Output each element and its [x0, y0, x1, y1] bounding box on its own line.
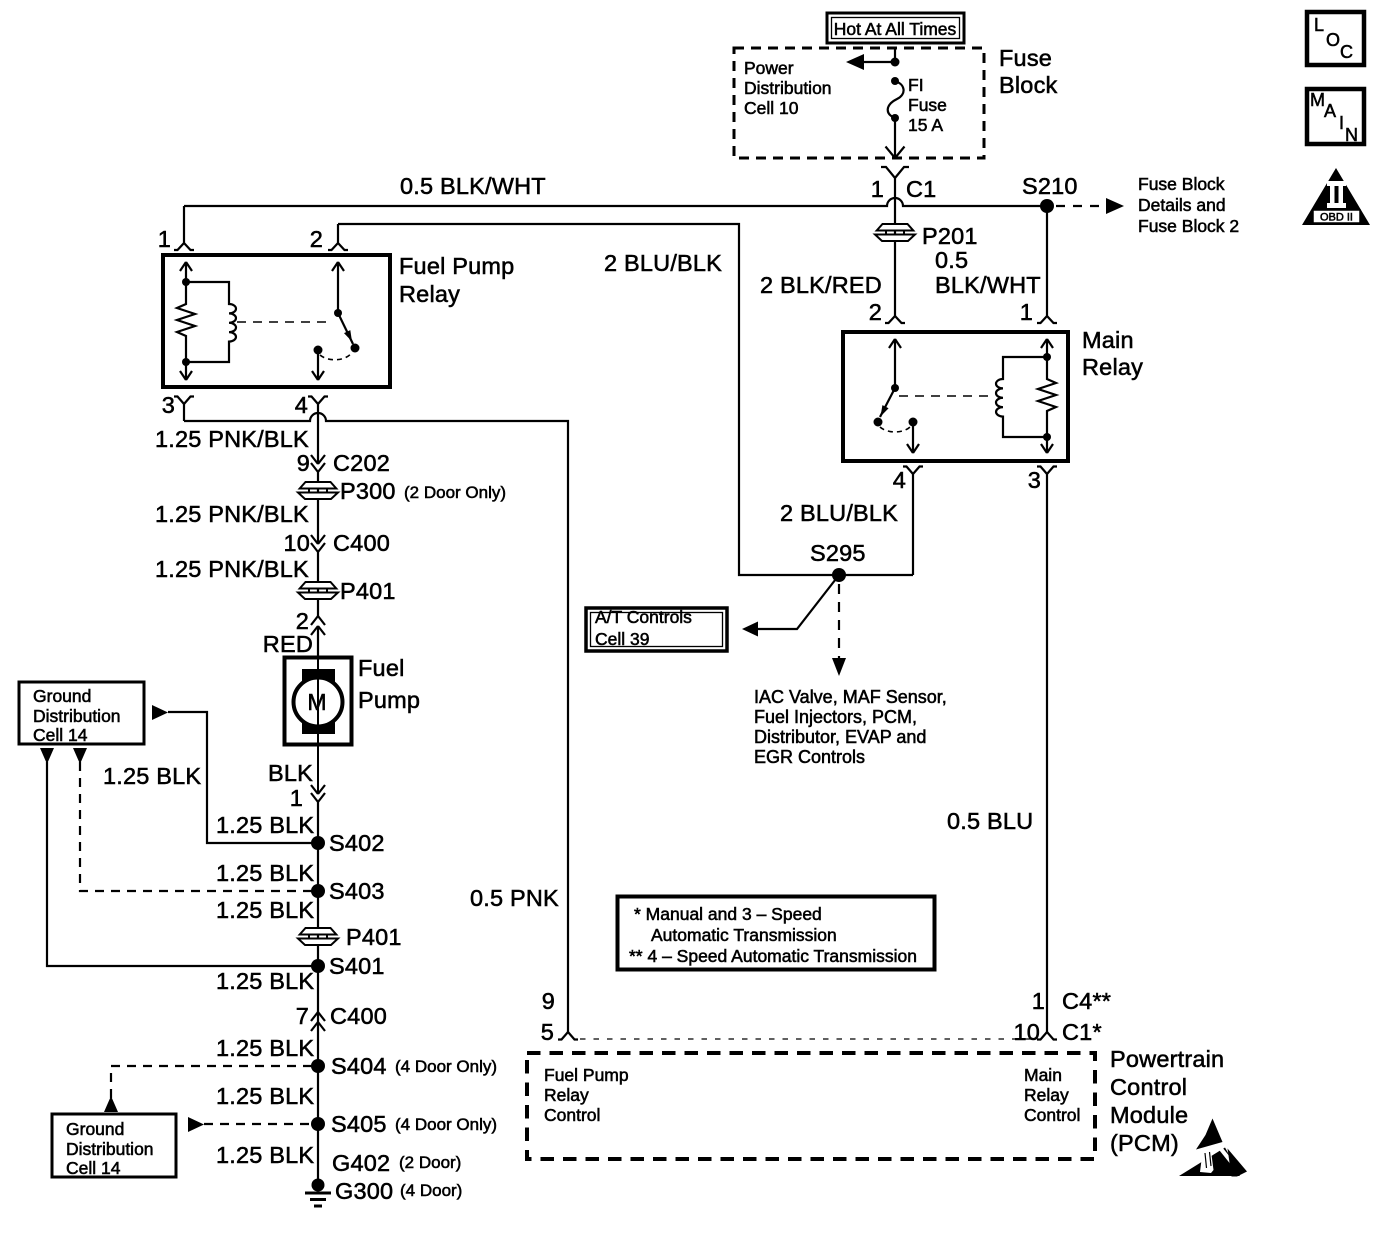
fuel pump connector pin 2 (inline, female + male arrow up) [263, 608, 325, 658]
dashed actuation line from coil to switch [237, 321, 330, 323]
wire: 1.25 PNK/BLK from relay pin 4 down [317, 412, 319, 464]
svg-text:C400: C400 [330, 1003, 387, 1029]
svg-text:Main: Main [1024, 1065, 1062, 1085]
svg-text:BLK/WHT: BLK/WHT [935, 272, 1041, 298]
fuel pump motor [285, 655, 421, 745]
wire: 1.25 BLK from box to S402 [168, 712, 318, 843]
svg-text:P300: P300 [340, 478, 396, 504]
arrow down from box (solid wire to S401) [40, 748, 54, 764]
wire: dashed from lower box up and right to S404 [111, 1066, 318, 1098]
pin 2 of main relay (female connector) [869, 299, 905, 325]
splice S403 [311, 884, 325, 898]
svg-text:Distribution: Distribution [33, 706, 121, 726]
Hot At All Times label box [827, 13, 964, 43]
svg-text:C1: C1 [906, 176, 936, 202]
svg-text:P401: P401 [340, 578, 396, 604]
powertrain control module PCM (dashed box) [527, 1053, 1095, 1159]
svg-text:S210: S210 [1022, 173, 1078, 199]
wire: S210 down to main relay pin 1 [1046, 206, 1048, 316]
svg-text:C: C [1340, 42, 1353, 62]
svg-text:Relay: Relay [1082, 354, 1143, 380]
svg-text:Distribution: Distribution [66, 1139, 154, 1159]
svg-text:Fuse Block: Fuse Block [1138, 174, 1225, 194]
fuse FI 15A [888, 75, 947, 135]
svg-text:Fuel Pump: Fuel Pump [544, 1065, 629, 1085]
svg-text:P201: P201 [922, 223, 978, 249]
svg-text:1.25 BLK: 1.25 BLK [216, 1035, 314, 1061]
arrow down to IAC valve etc. [832, 658, 846, 676]
node: coil/resistor top junction [1043, 353, 1051, 361]
connector C1 female Y, pin 1 [871, 167, 937, 206]
relay coil branch: arrow up to pin 1 inside box [1041, 339, 1053, 357]
svg-text:Fuel Pump: Fuel Pump [399, 253, 514, 279]
svg-text:9: 9 [297, 450, 310, 476]
svg-text:Relay: Relay [399, 281, 460, 307]
svg-text:A: A [1324, 101, 1336, 121]
pin 3 of main relay (female connector) [1028, 467, 1057, 1033]
svg-text:1: 1 [871, 176, 884, 202]
wire: dashed continuation from S210 to fuse block details [1056, 205, 1102, 207]
svg-text:I: I [1339, 113, 1344, 133]
svg-text:Block: Block [999, 72, 1058, 98]
svg-text:1.25 BLK: 1.25 BLK [216, 860, 314, 886]
svg-text:M: M [1310, 90, 1325, 110]
svg-text:BLK: BLK [268, 760, 313, 786]
svg-text:1.25 BLK: 1.25 BLK [216, 1083, 314, 1109]
wire: from box down to S401 [47, 762, 318, 966]
connector C400 pin 10 (inline, male arrow down + female) [283, 530, 390, 616]
svg-text:1: 1 [158, 226, 171, 252]
arrow up from lower box (dashed wire to S404) [104, 1096, 118, 1112]
arrow right from lower box (dashed wire to S405) [188, 1117, 204, 1132]
ground distribution reference box (upper) [19, 682, 144, 745]
svg-text:Control: Control [1024, 1105, 1080, 1125]
svg-text:(2 Door Only): (2 Door Only) [404, 483, 506, 502]
pin 2 of fuel pump relay (female connector) [310, 224, 348, 252]
splice S404 [311, 1059, 325, 1073]
pin 1 of main relay (female connector) [1020, 299, 1057, 325]
svg-text:Cell 14: Cell 14 [66, 1158, 121, 1178]
node: coil/resistor bottom junction [182, 358, 190, 366]
svg-text:C202: C202 [333, 450, 390, 476]
ground distribution reference box (lower) [52, 1114, 176, 1178]
svg-text:2 BLK/RED: 2 BLK/RED [760, 272, 882, 298]
svg-text:0.5: 0.5 [935, 247, 968, 273]
wire: contact down to pin 4, arrow at box edge [907, 422, 919, 453]
svg-text:1.25 BLK: 1.25 BLK [216, 1142, 314, 1168]
svg-text:C4**: C4** [1062, 988, 1111, 1014]
wire: contact down to pin 4, arrow at box edge [312, 350, 324, 380]
grommet P401 (lower) [298, 924, 402, 950]
splice S210 [1040, 199, 1054, 213]
wire: dashed from S295 down to IAC etc. [838, 584, 840, 658]
svg-text:Fuse Block 2: Fuse Block 2 [1138, 216, 1239, 236]
svg-text:Pump: Pump [358, 687, 420, 713]
arrow down from box (dashed wire to S403) [73, 748, 87, 764]
svg-text:Control: Control [1110, 1074, 1187, 1100]
pin 4 of fuel pump relay (female connector) [295, 392, 328, 418]
grommet P201 [875, 223, 978, 249]
grommet P401 [298, 578, 396, 604]
relay coil (inductor) of fuel pump relay [186, 282, 236, 362]
svg-text:10: 10 [283, 530, 310, 556]
svg-text:S295: S295 [810, 540, 866, 566]
relay coil (inductor) of main relay [996, 357, 1047, 437]
svg-text:3: 3 [162, 392, 175, 418]
node: coil/resistor top junction [182, 278, 190, 286]
svg-text:15 A: 15 A [908, 115, 943, 135]
svg-text:Fuel Injectors, PCM,: Fuel Injectors, PCM, [754, 707, 917, 727]
svg-text:7: 7 [296, 1003, 309, 1029]
wire: arrow down to pin 3 inside box [1041, 437, 1053, 453]
svg-text:S403: S403 [329, 878, 385, 904]
svg-text:0.5 BLU: 0.5 BLU [947, 808, 1033, 834]
svg-text:1.25 BLK: 1.25 BLK [103, 763, 201, 789]
svg-text:1.25 BLK: 1.25 BLK [216, 968, 314, 994]
switch blade (open, arrow tip) [880, 388, 895, 417]
svg-text:Relay: Relay [1024, 1085, 1069, 1105]
wire: feed into fuse block going left [863, 48, 895, 62]
svg-text:G300: G300 [335, 1178, 393, 1204]
svg-text:S401: S401 [329, 953, 385, 979]
node: switch pivot [334, 309, 342, 317]
wire: 2 BLU/BLK from fuel pump relay pin 2 up, right and down to S295 [338, 224, 913, 575]
svg-text:Cell 14: Cell 14 [33, 725, 88, 745]
svg-text:(4 Door Only): (4 Door Only) [395, 1057, 497, 1076]
svg-text:Fuse: Fuse [999, 45, 1052, 71]
grommet P300 [298, 478, 506, 504]
svg-text:C400: C400 [333, 530, 390, 556]
arrow from ground distribution box to S402 wire [152, 705, 168, 720]
node: blade tip [874, 418, 883, 427]
wire: 0.5 BLK/WHT horizontal from fuel pump relay pin 1 to S210, hops over C1 wire [184, 198, 1047, 206]
svg-text:S405: S405 [331, 1111, 387, 1137]
pin 3 of fuel pump relay (female connector) [162, 392, 194, 421]
svg-text:Relay: Relay [544, 1085, 589, 1105]
wire: arrow down to pin 3 inside box [180, 362, 192, 380]
svg-text:EGR Controls: EGR Controls [754, 747, 865, 767]
svg-text:O: O [1326, 30, 1340, 50]
label: IAC Valve, MAF Sensor ... [754, 687, 947, 767]
svg-text:Details and: Details and [1138, 195, 1226, 215]
LOC corner symbol [1307, 12, 1364, 65]
splice S402 [311, 836, 325, 850]
svg-text:C1*: C1* [1062, 1019, 1102, 1045]
svg-text:1.25 BLK: 1.25 BLK [216, 897, 314, 923]
svg-text:2: 2 [310, 226, 323, 252]
wire: dashed from lower box to S405 [204, 1123, 318, 1125]
main relay (box) [843, 332, 1068, 461]
node: pin 4 contact [314, 346, 323, 355]
svg-text:FI: FI [908, 75, 924, 95]
svg-text:S402: S402 [329, 830, 385, 856]
MAIN corner symbol [1307, 89, 1364, 145]
switch of fuel pump relay: pivot arm up to pin 2 [332, 262, 344, 313]
svg-text:Ground: Ground [66, 1119, 124, 1139]
svg-text:OBD II: OBD II [1320, 212, 1353, 224]
fuel pump relay K (box) [163, 255, 390, 387]
resistor of fuel pump relay [177, 282, 195, 362]
svg-text:Hot At All Times: Hot At All Times [834, 19, 957, 39]
svg-text:G402: G402 [332, 1150, 390, 1176]
wire: from S295 diagonal to A/T controls arrow [758, 575, 839, 629]
resistor of main relay [1038, 357, 1056, 437]
svg-text:1.25 PNK/BLK: 1.25 PNK/BLK [155, 426, 309, 452]
svg-text:0.5 BLK/WHT: 0.5 BLK/WHT [400, 173, 546, 199]
A/T Controls reference box [586, 607, 727, 651]
ESD sensitivity symbol [1179, 1119, 1247, 1180]
connector C202 pin 9 (inline, male arrow down + female) [297, 450, 390, 544]
fuse block dashed box [734, 48, 984, 158]
node: junction dot at fuse top feed [891, 58, 900, 67]
node: blade tip [351, 344, 360, 353]
svg-text:Fuse: Fuse [908, 95, 947, 115]
svg-text:Cell 10: Cell 10 [744, 98, 799, 118]
dashed connector face line between PCM pins [580, 1038, 1036, 1040]
svg-text:Main: Main [1082, 327, 1134, 353]
wire: C1 down to P201 [894, 206, 896, 316]
svg-text:(4 Door): (4 Door) [400, 1181, 462, 1200]
wire: through fuel pump and BLK down [317, 658, 319, 794]
arrow to power distribution (left) [846, 54, 864, 70]
svg-text:A/T Controls: A/T Controls [595, 607, 692, 627]
splice S401 [311, 959, 325, 973]
node: switch pivot [891, 384, 899, 392]
svg-text:0.5 PNK: 0.5 PNK [470, 885, 559, 911]
svg-text:2 BLU/BLK: 2 BLU/BLK [604, 250, 722, 276]
wire: fuse output down to C1 male arrow [886, 118, 905, 158]
svg-text:S404: S404 [331, 1053, 387, 1079]
dashed travel arc of switch [320, 352, 352, 360]
svg-text:3: 3 [1028, 467, 1041, 493]
svg-text:Fuel: Fuel [358, 655, 405, 681]
switch blade (open, arrow tip) [338, 313, 353, 344]
splice S405 [311, 1117, 325, 1131]
svg-text:N: N [1345, 125, 1358, 145]
wire: dashed from box to S403 [80, 762, 318, 891]
svg-text:5: 5 [541, 1019, 554, 1045]
svg-text:4: 4 [893, 467, 906, 493]
node: coil/resistor bottom junction [1043, 433, 1051, 441]
wire: 0.5 PNK from pin 3 right (hops pin 4 wire) then down to PCM pin 9/5 [184, 413, 568, 1032]
svg-text:Automatic Transmission: Automatic Transmission [651, 925, 837, 945]
svg-text:(2 Door): (2 Door) [399, 1153, 461, 1172]
svg-text:Ground: Ground [33, 686, 91, 706]
OBD II triangle symbol [1302, 168, 1370, 225]
svg-text:Control: Control [544, 1105, 600, 1125]
svg-text:1.25 PNK/BLK: 1.25 PNK/BLK [155, 501, 309, 527]
svg-text:1: 1 [290, 785, 303, 811]
svg-text:1: 1 [1032, 988, 1045, 1014]
dashed travel arc of switch [880, 426, 911, 432]
pin 1 of fuel pump relay (female connector) [158, 206, 194, 252]
svg-text:Distributor, EVAP and: Distributor, EVAP and [754, 727, 926, 747]
ground G300 (4 Door) symbol [305, 1178, 462, 1206]
switch of main relay: pivot arm up to pin 2 [889, 339, 901, 388]
svg-text:L: L [1314, 15, 1324, 35]
svg-text:2: 2 [869, 299, 882, 325]
svg-text:(4 Door Only): (4 Door Only) [395, 1115, 497, 1134]
dashed actuation line from switch to coil [899, 395, 988, 397]
svg-text:Powertrain: Powertrain [1110, 1046, 1224, 1072]
fuel pump connector pin 1 (inline, male arrow down + female) [290, 785, 325, 1186]
connector C400 pin 7 (inline, female + male arrow up) [296, 1003, 387, 1031]
svg-text:10: 10 [1013, 1019, 1040, 1045]
svg-text:* Manual and 3 – Speed: * Manual and 3 – Speed [634, 904, 822, 924]
node: pin 4 contact [909, 418, 918, 427]
svg-text:1: 1 [1020, 299, 1033, 325]
arrow to fuse block details [1106, 198, 1124, 214]
svg-text:RED: RED [263, 631, 313, 657]
svg-text:1.25 PNK/BLK: 1.25 PNK/BLK [155, 556, 309, 582]
note box: transmission footnotes [618, 897, 935, 970]
svg-text:Distribution: Distribution [744, 78, 832, 98]
svg-text:** 4 – Speed Automatic Transmi: ** 4 – Speed Automatic Transmission [629, 946, 917, 966]
splice S295 [832, 568, 846, 582]
PCM pin 9/5 (female connector) [541, 988, 578, 1045]
svg-text:Power: Power [744, 58, 794, 78]
svg-text:(PCM): (PCM) [1110, 1130, 1179, 1156]
svg-text:Cell 39: Cell 39 [595, 629, 649, 649]
arrow to A/T controls [742, 622, 758, 637]
svg-text:IAC Valve, MAF Sensor,: IAC Valve, MAF Sensor, [754, 687, 947, 707]
pin 4 of main relay (female connector) [893, 467, 923, 576]
svg-text:1.25 BLK: 1.25 BLK [216, 812, 314, 838]
PCM pin 1/10 (female connector) [1013, 988, 1057, 1045]
svg-text:2 BLU/BLK: 2 BLU/BLK [780, 500, 898, 526]
svg-text:9: 9 [542, 988, 555, 1014]
svg-text:4: 4 [295, 392, 308, 418]
svg-text:P401: P401 [346, 924, 402, 950]
relay coil branch: arrow up to pin 1 inside box [180, 262, 192, 282]
svg-text:Module: Module [1110, 1102, 1188, 1128]
